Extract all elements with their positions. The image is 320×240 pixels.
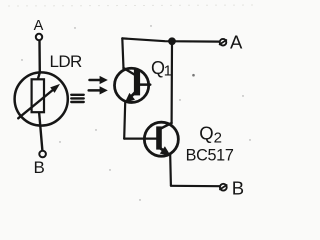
svg-text:LDR: LDR [50,52,83,71]
svg-text:A: A [230,32,243,53]
svg-text:B: B [232,177,244,198]
svg-text:B: B [34,158,45,177]
svg-text:2: 2 [214,130,222,147]
svg-text:Q: Q [199,122,213,143]
svg-text:1: 1 [164,64,172,80]
svg-text:BC517: BC517 [186,146,234,164]
svg-text:A: A [34,18,44,34]
